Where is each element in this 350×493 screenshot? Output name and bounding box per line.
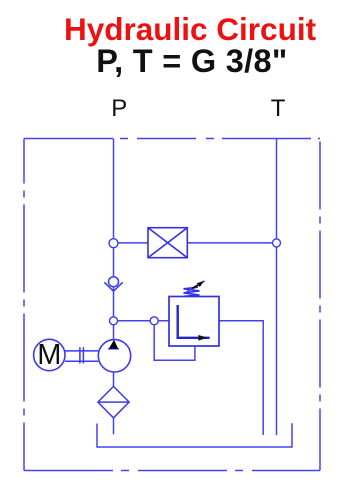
relief valve spring [184,287,200,296]
node circle on P line (X-box branch) [109,239,118,248]
shaft coupling [65,347,98,363]
enclosure dashed border top [24,138,320,140]
node circle on T line [273,239,281,247]
wire pump to filter [113,372,115,386]
wire P line vertical [113,139,115,340]
relief valve adjust arrow [185,281,205,293]
wire relief drain pilot loop [154,321,195,361]
enclosure dashed border bottom [24,470,320,472]
motor letter M [37,339,61,372]
filter F1 [98,386,129,418]
node circle junction P x relief branch [110,317,118,325]
port label P [111,95,127,123]
wire branch to relief valve [114,320,170,322]
wire T line vertical [276,139,278,436]
wire crossed-box right to T [187,242,276,244]
pump P1 [98,340,130,372]
plugged crossing X-box [148,228,187,258]
relief valve internal flow L-arrow [178,305,210,338]
subtitle: P, T = G 3/8" [96,43,287,80]
motor M1 [34,339,65,370]
wire relief out right then down to tank [219,321,263,435]
check valve V1 [104,277,122,292]
port label T [271,95,286,123]
enclosure dashed border left [23,139,25,471]
title: Hydraulic Circuit [64,11,316,48]
relief valve U1 body [169,281,219,346]
tank [97,423,292,447]
wire filter to tank [113,418,115,434]
wire crossed-box left [114,242,149,244]
enclosure dashed border right [319,142,321,471]
node circle pilot junction [150,317,158,325]
